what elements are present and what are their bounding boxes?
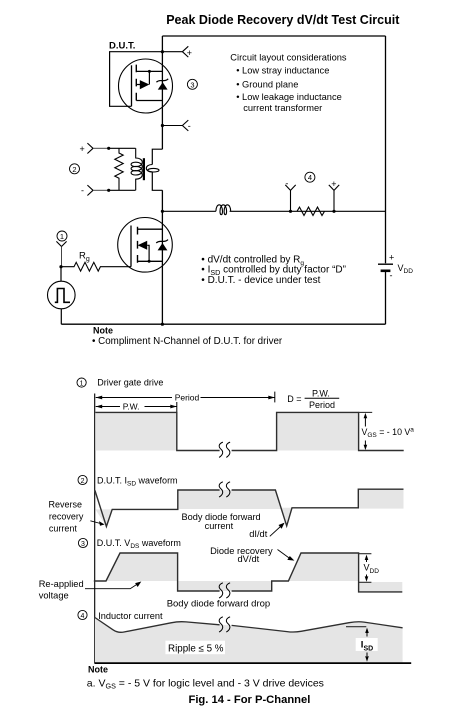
driver MOSFET Q2 circle [118,218,173,273]
wf1 duty equation [287,388,339,410]
svg-text:D.U.T.: D.U.T. [109,41,135,52]
svg-text:Driver gate drive: Driver gate drive [97,377,163,387]
Q1 drain stub bottom [136,100,162,102]
wf3 reapplied arrow [85,584,138,589]
wf1 label [77,377,163,387]
wf3 fill lower band left [178,581,272,591]
wf1 period arrow [96,392,275,403]
wf1 vgs up arrow [364,417,366,427]
node junction dot bottom probe [161,124,164,127]
svg-text:Fig. 14 - For P-Channel: Fig. 14 - For P-Channel [188,694,310,706]
D.U.T. bracket [110,52,163,107]
wf4 label [78,610,163,620]
svg-text:-: - [81,186,84,196]
wire transformer secondary jog top [152,149,162,164]
svg-text:dV/dt: dV/dt [238,554,260,564]
wf1 vgs down arrow [364,441,366,447]
node junction dot top probe [161,50,164,53]
svg-text:Circuit layout considerations: Circuit layout considerations [230,52,347,62]
wire left rail lower [161,190,163,324]
probe - (node 4 left) [285,178,295,211]
probe - (node 3 bottom) [162,120,190,131]
junction dot Rg [59,265,62,268]
Q2 source stub bottom [138,260,163,262]
wf1 pulse2 fill [277,412,359,450]
svg-text:2: 2 [81,478,85,485]
resistor dV/dt sense [297,207,325,215]
wf4 fill [95,618,403,663]
wf3 diode recovery arrow [278,550,291,559]
wf4 isd down arrow [366,653,368,657]
wire top rail [162,35,385,37]
wf4 ripple white box [165,641,225,655]
Q2 gate bar [130,226,132,267]
svg-text:-: - [390,271,393,281]
svg-text:• D.U.T. - device under test: • D.U.T. - device under test [201,275,320,286]
svg-text:Peak Diode Recovery dV/dt Test: Peak Diode Recovery dV/dt Test Circuit [166,13,400,27]
wf3 vdd up arrow [366,559,368,562]
node 2 circled [70,164,80,174]
inductor L1 [216,205,231,215]
svg-text:• Compliment N-Channel of D.U.: • Compliment N-Channel of D.U.T. for dri… [92,336,283,347]
wf3 vdd down arrow [366,575,368,579]
svg-text:D =: D = [287,394,301,404]
svg-text:+: + [187,48,192,58]
svg-text:4: 4 [81,613,85,620]
text circuit layout considerations [230,52,347,113]
Q1 body arrow [140,80,150,89]
junction dot load wire [161,210,164,213]
wf1 break squiggle [219,442,230,457]
svg-text:Reverse: Reverse [49,500,83,510]
resistor Rg [61,250,131,271]
svg-text:current: current [205,521,234,531]
svg-text:• Low stray inductance: • Low stray inductance [236,65,329,75]
wf1 pw arrow [96,402,177,412]
wf3 label [78,538,180,550]
svg-text:+: + [80,144,85,154]
wf2 body diode label [182,512,261,531]
wf2 fill left notch [95,509,112,526]
svg-text:Body diode forward drop: Body diode forward drop [167,599,271,610]
Q1 gate bar [131,65,133,106]
svg-text:3: 3 [190,80,194,89]
svg-text:+: + [389,252,394,262]
wf2 break squiggle [219,482,230,497]
svg-text:Re-applied: Re-applied [39,579,84,589]
wf4 bottom baseline [94,662,411,664]
wf1 pulse1 fill [95,412,177,450]
transformer T1 primary coil [131,148,142,190]
wf2 waveform line [95,489,404,526]
resistor CT burden [115,148,123,190]
junction dot bottom rail [161,323,164,326]
junction dot CT bottom [107,189,110,192]
node 4 circled [305,172,315,182]
probe + (node 4 right) [329,179,339,211]
svg-text:dI/dt: dI/dt [249,529,268,539]
wire left rail upper [161,36,163,149]
Q1 source stub top [136,70,162,72]
wire CT top [109,147,136,149]
wf4 break squiggle [219,617,230,632]
node 3 circled [187,79,197,89]
transformer T1 core [143,158,145,180]
svg-text:-: - [188,121,191,131]
svg-text:voltage: voltage [39,590,69,600]
svg-text:Note: Note [93,325,113,335]
svg-text:Ripple ≤ 5 %: Ripple ≤ 5 % [168,643,224,654]
svg-text:current: current [49,524,78,534]
text dVdt bullets [201,254,346,286]
svg-text:Note: Note [88,664,108,674]
wire CT bottom [109,189,136,191]
transformer T1 secondary coil [146,165,159,173]
transistor Q1 D.U.T. P-channel MOSFET circle [119,59,173,113]
wf2 reverse recovery label [49,500,84,534]
wf3 diode recovery label [210,546,273,564]
svg-text:P.W.: P.W. [123,402,140,412]
Q2 body diode [156,240,168,251]
wf1 waveform line [95,412,403,450]
probe + (node 2 top) [80,143,109,154]
wf2 fill right notch [280,508,292,526]
wire right rail upper [385,36,387,263]
junction dot CT top [107,147,110,150]
junction dot node4 left [289,210,292,213]
svg-text:a. VGS = - 5 V for logic level: a. VGS = - 5 V for logic level and - 3 V… [87,677,324,690]
svg-text:Period: Period [309,400,335,410]
svg-text:+: + [331,179,336,189]
svg-text:2: 2 [72,165,76,174]
Q2 body tie [147,245,149,261]
Q1 body tie [136,71,149,84]
svg-text:recovery: recovery [49,512,84,522]
wf3 reapplied label [39,579,84,600]
svg-text:• Low leakage inductance: • Low leakage inductance [236,92,342,102]
Q1 tie junction dot [148,70,151,73]
wf4 isd tick [346,626,366,628]
wf3 waveform line [94,553,403,592]
Q1 body diode [156,79,168,90]
wf2 label [78,475,178,487]
Q2 channel dashes [137,227,139,263]
wire load rail [162,210,385,212]
wf3 break squiggle [219,583,230,598]
svg-text:Period: Period [175,393,200,403]
wf2 dIdt arrow [270,527,281,537]
probe + (node 3 top) [162,46,192,58]
battery VDD [378,252,413,280]
wf3 fill left pulse [106,553,178,581]
junction dot node4 right [332,210,335,213]
wf4 waveform line [95,618,403,633]
wf4 isd up arrow [366,632,368,637]
svg-text:• Ground plane: • Ground plane [236,80,298,90]
wire right rail lower [385,272,387,325]
svg-text:Inductor current: Inductor current [98,611,163,621]
Q2 tie junction dot [148,260,151,263]
Q1 channel dashes [135,65,137,101]
wf2 reverse recovery arrow [90,521,100,524]
svg-text:current transformer: current transformer [243,103,322,113]
wf2 fill first pulse [178,490,281,509]
Q2 body arrow [138,241,148,250]
wf1 vgs top tick [359,411,373,413]
wf4 isd label box [356,638,378,653]
probe - (node 2 bottom) [81,185,109,196]
Q2 drain stub top [138,228,163,230]
svg-text:1: 1 [80,380,84,387]
probe arrow node 1 [56,241,66,246]
wf3 vdd ticks [359,554,372,583]
wf3 fill right pulse [288,553,358,581]
wire bottom rail [61,323,385,325]
svg-text:3: 3 [81,541,85,548]
wf3 fill lower band right [359,582,403,592]
wf2 fill right pulse [358,489,403,508]
wire transformer secondary jog bottom [152,172,162,190]
svg-text:1: 1 [60,232,64,241]
node 1 circled [57,231,67,241]
svg-text:4: 4 [308,173,312,182]
svg-text:P.W.: P.W. [312,388,330,398]
pulse generator V1 [48,267,76,325]
wf axis vertical [94,394,96,663]
